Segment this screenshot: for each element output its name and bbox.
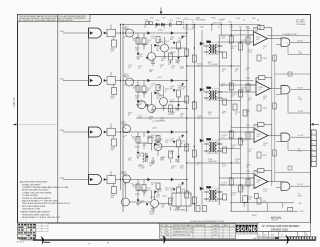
fold crease line (left) [18,123,58,125]
resistor R215 (feedback) [258,26,265,30]
svg-text:WM: WM [166,234,170,236]
gate U235B [281,182,290,190]
resistor R250 [243,196,248,203]
wire: aux output B2 [275,73,311,75]
transformer T140 [204,187,223,200]
wire: channel C output [291,136,310,138]
svg-text:120: 120 [231,48,234,50]
resistor R213 [246,37,250,44]
diode CR110 [148,32,151,35]
svg-text:DATE: DATE [214,224,219,227]
svg-text:47: 47 [151,86,153,88]
wire: supply stubs [145,25,310,114]
svg-text:100: 100 [248,199,251,201]
patent notice box [18,15,91,23]
wire: stage4 links [125,180,186,204]
svg-text:330: 330 [175,161,178,163]
resistor R142 [136,184,140,191]
transistor Q134 [138,101,146,109]
svg-text:+0.6V: +0.6V [149,214,155,216]
resistor R223 [246,84,250,91]
svg-text:+24.5V: +24.5V [218,20,224,22]
diode CR130 [148,131,151,134]
node: gate input dot [88,176,89,177]
wire: stage4 signal row [123,179,187,181]
svg-text:47: 47 [246,69,248,71]
svg-text:470: 470 [111,98,114,100]
wire: bias drops [244,203,283,211]
wire: pad pull-up [110,25,112,30]
wire: +5V rail [230,202,294,204]
resistor R121 [112,88,117,95]
svg-text:TRANSFORMER AND BRANDS: TRANSFORMER AND BRANDS [20,211,51,214]
svg-text:47: 47 [235,71,237,73]
resistor R111 [112,40,117,47]
wire: opamp A feedback loop [254,28,282,39]
wire: pad pull-up [110,124,112,129]
transistor Q142 [151,200,159,208]
svg-text:330: 330 [241,141,244,143]
svg-text:47: 47 [263,48,265,50]
svg-text:SELECTED AND ISOLATED: SELECTED AND ISOLATED [22,189,49,192]
svg-text:-5.2V: -5.2V [299,211,304,213]
logo: company mark (black letters) [236,225,257,233]
svg-text:R101: R101 [145,20,149,22]
svg-text:+1.5 (4X) 0.5V: +1.5 (4X) 0.5V [152,121,166,123]
svg-text:TO READOUT BD: TO READOUT BD [282,33,297,36]
wire: pad drop [113,37,115,40]
second speckle pass [128,36,251,193]
svg-text:SET IN ACTIVATION AIR: SET IN ACTIVATION AIR [22,205,46,208]
scan: punch hole 2 [162,235,166,244]
label: channel D out [298,184,305,198]
node: row2 bus junction [120,80,121,81]
resistor R231 [229,131,233,138]
svg-text:7-66: 7-66 [214,231,218,233]
svg-text:1: 1 [312,133,313,135]
svg-text:6: 6 [312,160,313,162]
label: stage1 values [135,30,172,67]
svg-text:C250: C250 [252,215,257,217]
stage detail enrichment [124,28,180,213]
svg-text:2N918: 2N918 [121,173,126,175]
svg-text:680: 680 [263,98,266,100]
component value speck labels [133,29,268,211]
svg-text:D OUT: D OUT [298,184,305,186]
svg-text:680: 680 [170,201,173,203]
titlebox: number row [258,232,311,238]
resistor cluster between rows B and C [219,101,247,149]
svg-text:120: 120 [248,151,251,153]
wire: +20V supply rail [123,24,232,26]
svg-text:EACH IS IN RATIO TO THE SETTIN: EACH IS IN RATIO TO THE SETTING [22,200,58,203]
svg-text:562: 562 [143,94,146,96]
wire: input row3 [63,131,89,133]
svg-text:562: 562 [139,203,142,205]
transistor Q114 [148,53,156,61]
svg-text:2: 2 [312,138,313,140]
wire: center bus E [201,30,203,205]
svg-text:330: 330 [248,100,251,102]
resistor R116 [177,42,181,49]
resistor R120 (series pad) [107,77,116,85]
svg-text:x10: x10 [256,39,259,41]
titlebox: frame [258,222,311,231]
wire: pad drop [113,183,115,186]
diode CR204 [200,187,203,190]
svg-text:75: 75 [160,67,162,69]
svg-text:B OUT: B OUT [298,88,305,90]
wire: A-row readout line [268,35,311,37]
transistor Q144 [121,198,129,206]
wire: gate2 output with flow arrow [104,80,121,82]
svg-text:THIS A BUSY LINE: THIS A BUSY LINE [22,208,40,211]
svg-text:Q142: Q142 [162,196,167,198]
svg-text:C281: C281 [246,171,250,173]
svg-text:100: 100 [171,114,174,116]
svg-text:TP101: TP101 [211,18,216,20]
svg-text:CHANGED R215 TO 562: CHANGED R215 TO 562 [173,230,193,233]
svg-text:C235: C235 [246,125,250,127]
logo: letter cutouts [236,227,257,233]
node: gate input dot [88,30,89,31]
fold arrow marker [160,8,163,15]
resistor R103 [176,22,182,25]
wire: double bus A [120,25,122,191]
wire: stage3 links [138,132,187,156]
resistor R110 (series pad) [107,29,116,37]
transistor Q112 [161,44,169,52]
resistor R255 [196,206,200,212]
scan: thick bottom line [33,239,316,241]
svg-text:.1UH: .1UH [140,168,145,170]
svg-text:47: 47 [175,209,177,211]
wire: left vertical bus [57,15,59,224]
left margin tick [13,124,17,126]
svg-text:J240: J240 [298,196,302,198]
svg-text:470: 470 [111,197,114,199]
wire: opamp D feedback loop [254,171,281,182]
resistor R145 [169,198,173,205]
svg-text:OTHER CIRCUITS RETURNED: OTHER CIRCUITS RETURNED [22,192,52,194]
table: parts grid [18,223,36,239]
transformer T120 [204,88,223,100]
op-amp U230B [254,175,268,189]
svg-text:C101: C101 [169,20,173,22]
diode CR201 [200,42,203,45]
label: connector pin numbers [312,133,313,162]
svg-text:J220: J220 [298,99,302,101]
label: number row values [259,235,308,237]
wire: center bus D [193,25,195,213]
resistor dividers on feedback bus [273,55,276,156]
resistor R251 [254,193,258,198]
scan: sprocket ticks [289,236,316,239]
svg-text:330: 330 [149,71,152,73]
svg-text:.01: .01 [181,191,183,193]
wire: right bus I [247,28,249,211]
diode CR122 [171,79,174,82]
wire: input row1 [63,32,89,34]
wire: mid divider rail [136,117,219,119]
svg-text:100: 100 [180,116,183,118]
inductor L130 [143,153,148,163]
resistor R132 [136,137,140,144]
wire: right bus G [230,25,232,212]
svg-text:100: 100 [149,165,152,167]
wire: entry arrow [311,123,319,126]
svg-text:5: 5 [312,154,313,156]
svg-text:120: 120 [255,174,258,176]
transistor Q110 [126,29,134,37]
svg-text:+20.5V: +20.5V [210,161,217,163]
wire: pad pull-up [110,171,112,176]
svg-text:NO 10 4: NO 10 4 [17,241,25,243]
svg-text:CONNECTORS AND AVAILABLE GAIN: CONNECTORS AND AVAILABLE GAIN 470 OHM [22,186,68,189]
scan: punch hole 1 [41,236,44,244]
diode CR102 [162,23,165,26]
svg-text:2N918: 2N918 [121,123,126,125]
svg-text:R103: R103 [177,18,181,20]
wire: channel B output [291,89,310,91]
diode CR112 [171,32,174,35]
node: bus row junctions [120,24,124,180]
svg-text:75: 75 [222,113,224,115]
transistor Q130 [123,125,131,133]
svg-text:ABC/STROBING REQUIRED:: ABC/STROBING REQUIRED: [20,181,48,184]
svg-text:C106: C106 [236,18,240,20]
svg-text:x10: x10 [257,182,260,184]
svg-text:100: 100 [208,114,211,116]
svg-text:DIMENSION: DIMENSION [195,225,206,227]
label: channel C out [298,135,305,153]
resistor R131 [112,139,117,146]
wire: channel D output [291,185,310,187]
resistor R141 [112,187,117,194]
transistor Q140 [123,175,131,183]
svg-text:SIGNAL DELIVERY: SIGNAL DELIVERY [22,183,41,186]
svg-text:JL: JL [166,228,168,230]
svg-text:47: 47 [222,71,224,73]
resistor R115 [169,53,173,60]
resistor R133 [148,137,152,144]
svg-text:PRINTING D APPLICATIONS: PRINTING D APPLICATIONS [22,213,50,216]
wire: +20.5V rail lower [187,162,241,164]
svg-text:+20.5V: +20.5V [211,64,218,66]
svg-text:R142: R142 [135,194,140,196]
svg-text:2N918: 2N918 [124,76,129,78]
resistor R102 [149,22,152,25]
resistor R235 (feedback) [258,123,265,127]
svg-text:562: 562 [135,50,138,52]
resistor R101 [146,22,149,25]
resistor R130 (series pad) [107,128,116,136]
gate U235A [281,133,290,141]
gate U110 [89,28,102,38]
svg-text:REF: REF [246,27,249,29]
resistor R122 [136,86,140,93]
svg-text:100: 100 [171,168,174,170]
wire: right bus F [218,35,220,205]
svg-text:A OUT: A OUT [298,39,305,42]
resistor R243 [246,179,250,186]
svg-text:100: 100 [158,42,161,44]
wire: +20.5V rail upper [187,65,241,67]
resistor R218 (bus D) [185,49,197,204]
svg-text:330: 330 [143,193,146,195]
svg-text:100: 100 [170,190,173,192]
svg-text:4: 4 [312,149,313,151]
node: row4 bus junction [120,179,121,180]
wire: opamp A inputs [248,35,254,42]
node: input tie junctions [186,32,241,204]
label: supply rail component values [145,17,233,23]
svg-text:562: 562 [135,98,138,100]
svg-text:COLOR INDUSTRIES INC: COLOR INDUSTRIES INC [236,234,258,236]
table: revision box [160,224,236,239]
wire: right bus H [240,28,242,203]
svg-text:.01: .01 [243,20,245,22]
svg-text:3: 3 [312,144,313,146]
label: channel A out [287,39,304,55]
svg-text:PRODUCTION CHART: PRODUCTION CHART [173,224,193,227]
svg-text:330: 330 [255,81,258,83]
svg-text:C288: C288 [246,78,250,80]
resistor R144 [156,183,160,189]
svg-text:562: 562 [175,110,178,112]
opamp area enrichment [231,31,292,205]
wire: double bus B [122,25,124,213]
svg-text:Q132: Q132 [152,128,157,130]
label: stage4 values [135,194,167,216]
resistor R211 [229,36,233,43]
wire: channel A output [291,41,310,43]
svg-text:REGISTERED J C.B AUG 1965: REGISTERED J C.B AUG 1965 NO 2217 [22,216,61,219]
gate U130 [89,127,102,137]
svg-text:562: 562 [175,62,178,64]
svg-text:FILTER 50 OHM IMPEDANCE: FILTER 50 OHM IMPEDANCE [22,197,51,200]
resistor R252 [288,207,293,211]
svg-text:TO A BLOCKING: TO A BLOCKING [22,194,38,197]
transformer T130 [204,139,223,152]
resistor R135 [169,151,173,158]
wire: gate interconnect bus upper [88,38,90,77]
diode CR132 [171,131,174,134]
wire: stage3 signal row [123,131,187,133]
svg-text:ADDED DELAY LINE: ADDED DELAY LINE [173,233,191,236]
wire: input row4 [63,179,89,181]
transistor Q124 [148,105,156,113]
svg-text:470: 470 [111,51,114,53]
label: transistor designators [121,27,164,200]
svg-text:4-66: 4-66 [214,228,218,230]
resistor R232 [239,138,243,145]
svg-text:47: 47 [235,114,237,116]
wire: input row2 [63,80,89,82]
gate U120 [89,76,102,86]
svg-text:2-12-67: 2-12-67 [272,219,278,221]
svg-text:J230: J230 [298,151,302,153]
table: light extension [36,223,48,231]
gate U215A [281,38,290,46]
wire: gate3 output with flow arrow [104,131,121,133]
op-amp U230A [254,129,268,143]
label: revision header [160,224,228,236]
svg-text:CR2: CR2 [162,18,165,20]
wire: opamp B inputs [248,85,256,92]
resistor R242 [239,185,243,192]
svg-text:REVISED PER ECO 4411: REVISED PER ECO 4411 [173,228,194,230]
wire: stage2 signal row [123,80,187,82]
svg-text:1-80 CS: 1-80 CS [12,97,16,107]
svg-text:Q112: Q112 [158,30,162,32]
svg-text:R235: R235 [263,155,267,157]
wire: opamp B feedback loop [256,78,281,89]
svg-text:330: 330 [133,88,136,90]
node: gate input dot [88,129,89,130]
svg-text:120: 120 [139,104,142,106]
svg-text:680: 680 [170,153,173,155]
svg-text:CR1: CR1 [156,20,159,22]
transistor Q122 [160,98,168,106]
svg-text:100: 100 [231,96,234,98]
svg-text:47: 47 [156,149,158,151]
svg-text:562: 562 [149,119,152,121]
svg-text:R132: R132 [135,147,140,149]
transformer outline boxes [207,43,220,202]
node: row1 bus junction [120,32,121,33]
svg-text:562: 562 [170,88,173,90]
svg-text:120: 120 [161,207,164,209]
resistor R241 [229,178,233,185]
svg-text:DRIVER 0100: DRIVER 0100 [271,228,288,232]
resistor R123 [142,86,146,93]
svg-text:.01: .01 [133,139,136,141]
capacitor C-row crossing ties [223,52,227,200]
op-amp U210B [256,82,270,96]
diode CR203 [200,139,203,142]
transistor Q120 [126,78,134,86]
resistor R140 (series pad) [107,176,116,184]
resistor R112 [136,38,140,45]
resistor R222 [239,90,243,97]
resistor R212 [239,43,243,50]
svg-text:DL1: DL1 [185,18,188,20]
connector J201 pin strip [311,130,316,167]
wire: pad drop [113,84,115,87]
gate U140 [89,175,102,185]
svg-text:330: 330 [128,160,131,162]
svg-text:330: 330 [143,145,146,147]
svg-text:R107: R107 [252,18,256,20]
schematic sheet [18,15,311,224]
node: row3 bus junction [120,131,121,132]
resistor R233 [246,132,250,139]
svg-text:<3> STAGE AMP AND RETMET: <3> STAGE AMP AND RETMET [261,224,300,228]
svg-text:SPLITTER: SPLITTER [196,20,206,22]
transformer T110 [204,42,223,54]
diode CR202 [200,88,203,91]
svg-text:OF BOARD: OF BOARD [296,23,307,26]
svg-text:x10: x10 [257,136,260,138]
wire: pad drop [113,136,115,139]
resistor R134 [156,136,160,142]
resistor R113 [142,38,146,45]
transistor Q132 [154,143,162,151]
resistor R256 [203,206,207,212]
capacitor C101 on rail [170,23,172,27]
gate U215B [281,86,290,94]
